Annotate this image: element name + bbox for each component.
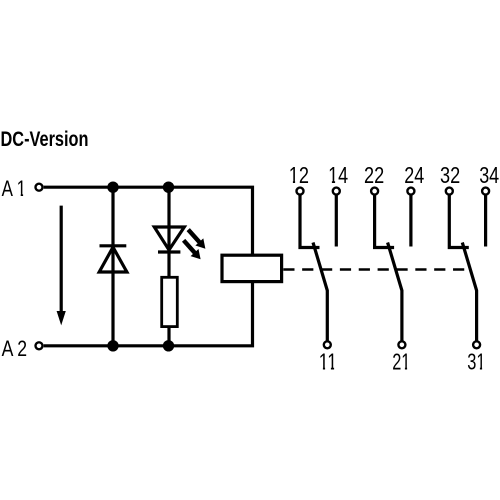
wire 12 with NC bar bbox=[300, 195, 320, 247]
terminal 14 bbox=[333, 188, 340, 195]
svg-text:32: 32 bbox=[440, 162, 460, 188]
relay coil K1 bbox=[222, 255, 282, 281]
LED V2 cathode bar bbox=[158, 250, 180, 253]
terminal 12 bbox=[297, 188, 304, 195]
terminal 24 bbox=[407, 188, 414, 195]
terminal 31 bbox=[473, 341, 480, 348]
terminal 34 bbox=[482, 188, 489, 195]
contact 2 group bbox=[364, 162, 424, 374]
terminal 21 bbox=[398, 341, 405, 348]
wire 34 bbox=[484, 195, 487, 246]
wire coil to A2 rail bbox=[44, 282, 253, 346]
diode V1 bbox=[99, 247, 127, 272]
node junction A2-LED bbox=[163, 340, 174, 351]
terminal A1 bbox=[36, 184, 43, 191]
svg-text:21: 21 bbox=[392, 348, 410, 374]
terminal A2 bbox=[36, 342, 43, 349]
svg-text:A 2: A 2 bbox=[2, 336, 28, 361]
resistor R1 bbox=[162, 277, 178, 326]
svg-text:34: 34 bbox=[479, 162, 499, 188]
svg-text:A 1: A 1 bbox=[2, 176, 27, 201]
wire resistor to A2 rail bbox=[167, 326, 170, 346]
terminal 11 bbox=[324, 341, 331, 348]
svg-text:31: 31 bbox=[467, 348, 485, 374]
contact 3 group bbox=[440, 162, 499, 374]
node junction A1-diode bbox=[107, 182, 118, 193]
LED emission arrow upper bbox=[188, 230, 205, 249]
wire 32 with NC bar bbox=[449, 195, 469, 247]
terminal 32 bbox=[446, 188, 453, 195]
wire 14 bbox=[335, 195, 338, 246]
LED emission arrow lower bbox=[184, 240, 201, 259]
contact 1 group bbox=[289, 162, 348, 374]
polarity arrow bbox=[57, 206, 66, 326]
mechanical link dashed bbox=[283, 268, 465, 271]
wire A1 rail to coil bbox=[44, 187, 253, 255]
node junction A2-diode bbox=[107, 340, 118, 351]
wire LED branch bbox=[167, 189, 170, 278]
svg-text:22: 22 bbox=[364, 162, 384, 188]
terminal 22 bbox=[371, 188, 378, 195]
wire diode branch bbox=[111, 189, 114, 344]
svg-text:11: 11 bbox=[319, 348, 337, 374]
svg-text:DC-Version: DC-Version bbox=[1, 128, 89, 151]
svg-text:24: 24 bbox=[404, 162, 424, 188]
node junction A1-LED bbox=[163, 182, 174, 193]
contact arm 2 bbox=[388, 243, 402, 341]
svg-text:14: 14 bbox=[328, 162, 348, 188]
svg-text:12: 12 bbox=[289, 162, 309, 188]
contact arm 3 bbox=[462, 243, 476, 341]
digit styling masks bbox=[17, 181, 485, 371]
wire 24 bbox=[409, 195, 412, 246]
wire 22 with NC bar bbox=[375, 195, 395, 247]
LED V2 bbox=[154, 227, 184, 250]
contact arm 1 bbox=[313, 243, 327, 341]
diode V1 cathode bar bbox=[100, 244, 127, 247]
